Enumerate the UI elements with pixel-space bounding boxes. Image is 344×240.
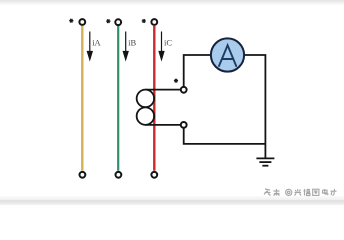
svg-text:iB: iB	[128, 38, 136, 48]
svg-text:iA: iA	[92, 38, 101, 48]
svg-text:iC: iC	[164, 38, 172, 48]
